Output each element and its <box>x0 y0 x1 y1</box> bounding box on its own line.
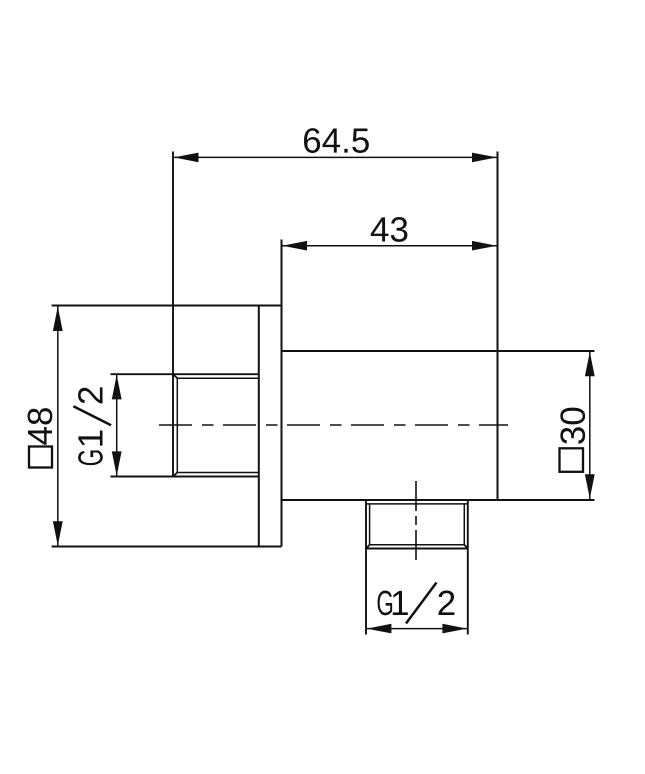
dim text G1/2 left <box>78 387 103 465</box>
dimension line G1/2 bottom <box>366 628 468 630</box>
dim text square-48 digits <box>28 408 53 445</box>
dim text square-30 digits <box>560 408 585 444</box>
arrowhead 64.5 right <box>472 153 497 163</box>
body top edge + sq30 top extension line <box>282 350 595 352</box>
rear thread minor diameter line top <box>177 377 258 379</box>
arrowhead 43 left <box>282 241 307 251</box>
vertical centerline of bottom outlet <box>415 481 417 560</box>
plate bottom edge + sq48 bottom extension line <box>52 546 282 548</box>
dimension line 43 <box>282 245 498 247</box>
dim text 43 <box>371 217 408 242</box>
dimension line G1/2 left <box>116 374 118 476</box>
rear thread major outline bottom + left G1/2 dim bottom extension <box>111 476 259 478</box>
square symbol of 30 label <box>560 448 584 472</box>
rear G1/2 thread major outline top + left G1/2 dim top extension <box>111 373 259 375</box>
bottom G1/2 thread major left side + dim extension <box>365 500 367 635</box>
bottom thread chamfer right <box>464 545 468 549</box>
bottom thread chamfer left <box>366 545 370 549</box>
rear thread end face + 64.5 left extension line <box>172 152 174 477</box>
arrowhead 64.5 left <box>174 153 199 163</box>
rear thread chamfer bottom-left <box>173 473 177 477</box>
arrowhead G1/2-left bottom <box>112 451 122 476</box>
plate top edge + sq48 top extension line <box>52 305 282 307</box>
bottom thread runout line <box>366 503 468 505</box>
body right edge + 64.5/43 right extension line <box>497 152 499 501</box>
arrowhead sq48 top <box>53 306 63 331</box>
dim text G1/2 bottom <box>378 591 455 616</box>
slash of bottom G1/2 <box>406 583 437 624</box>
slash of left G1/2 <box>73 406 111 425</box>
dimension line sq30 <box>589 351 591 500</box>
bottom thread minor diameter right <box>463 504 465 545</box>
dim text 64.5 <box>304 128 369 153</box>
arrowhead sq48 bottom <box>53 521 63 546</box>
bottom thread major right side + dim extension <box>467 500 469 635</box>
arrowhead 43 right <box>472 241 497 251</box>
body bottom edge + sq30 bottom extension line <box>282 499 595 501</box>
rear thread chamfer top-left <box>173 374 177 378</box>
plate right edge / body rear face + 43 extension line <box>281 240 283 547</box>
bottom thread end minor line <box>370 544 465 546</box>
square symbol of 48 label <box>29 447 52 468</box>
bottom thread minor diameter left <box>369 504 371 545</box>
arrowhead sq30 top <box>585 352 595 377</box>
bottom thread end face <box>366 548 468 550</box>
rear thread minor diameter line bottom <box>177 472 258 474</box>
horizontal centerline <box>159 424 508 426</box>
plate left edge <box>258 306 260 547</box>
dimension line sq48 <box>57 306 59 547</box>
arrowhead G1/2-left top <box>112 375 122 400</box>
arrowhead sq30 bottom <box>585 474 595 499</box>
arrowhead G1/2-bottom left <box>367 624 392 634</box>
dimension line 64.5 <box>173 156 498 158</box>
escutcheon plate side view <box>259 240 282 547</box>
rear thread end minor line <box>176 378 178 472</box>
arrowhead G1/2-bottom right <box>442 624 467 634</box>
